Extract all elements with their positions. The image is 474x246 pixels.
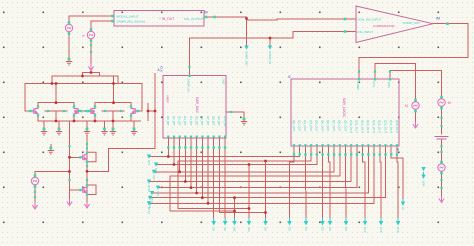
- svg-text:Q7_OUT: Q7_OUT: [332, 120, 336, 132]
- svg-text:SAMP_SIG: SAMP_SIG: [244, 51, 248, 67]
- svg-text:VRF: VRF: [421, 181, 425, 187]
- svg-text:C15: C15: [379, 227, 383, 233]
- svg-text:Q16_OUT: Q16_OUT: [383, 120, 387, 133]
- svg-text:SAMP_IN: SAMP_IN: [187, 79, 191, 92]
- svg-text:?: ?: [159, 17, 161, 21]
- svg-text:INV_INPUT: INV_INPUT: [358, 30, 374, 34]
- svg-text:COMP: COMP: [356, 82, 360, 91]
- svg-text:SIG_OUTPUT: SIG_OUTPUT: [184, 17, 204, 21]
- svg-text:Q4_OUT: Q4_OUT: [315, 120, 319, 132]
- svg-text:Q11_OUT: Q11_OUT: [355, 120, 359, 133]
- svg-text:VREF: VREF: [166, 95, 170, 103]
- svg-text:D3_BIT: D3_BIT: [183, 116, 187, 126]
- svg-text:NON_INV_INPUT: NON_INV_INPUT: [358, 17, 382, 21]
- svg-text:Q5_OUT: Q5_OUT: [320, 120, 324, 132]
- svg-text:CLK: CLK: [372, 82, 376, 88]
- svg-text:VDD: VDD: [387, 82, 391, 88]
- svg-text:Q13_OUT: Q13_OUT: [366, 120, 370, 133]
- svg-text:C6: C6: [328, 227, 332, 231]
- svg-text:Q6_OUT: Q6_OUT: [326, 120, 330, 132]
- svg-text:Q0_OUT: Q0_OUT: [292, 120, 296, 132]
- svg-text:IN_OUT: IN_OUT: [162, 17, 174, 21]
- svg-text:Q2_OUT: Q2_OUT: [303, 120, 307, 132]
- svg-text:D9_BIT: D9_BIT: [217, 116, 221, 126]
- svg-text:D0_BIT: D0_BIT: [166, 116, 170, 126]
- svg-text:NT14: NT14: [147, 207, 151, 214]
- svg-text:Q12_OUT: Q12_OUT: [360, 120, 364, 133]
- svg-text:Q8_OUT: Q8_OUT: [338, 120, 342, 132]
- svg-text:NT7: NT7: [152, 175, 156, 181]
- svg-text:SAR_DAC: SAR_DAC: [195, 97, 199, 114]
- svg-text:S0: S0: [223, 227, 227, 231]
- svg-text:CLK: CLK: [160, 66, 164, 72]
- svg-text:D5_BIT: D5_BIT: [195, 116, 199, 126]
- svg-text:S8: S8: [212, 227, 216, 231]
- svg-text:NT11: NT11: [156, 191, 160, 198]
- svg-text:M: M: [448, 101, 451, 105]
- svg-text:SAMPLING_SIGNAL: SAMPLING_SIGNAL: [117, 20, 146, 24]
- svg-text:Q15_OUT: Q15_OUT: [378, 120, 382, 133]
- svg-text:C18: C18: [396, 227, 400, 233]
- svg-text:C5: C5: [320, 227, 324, 231]
- svg-text:Q18_OUT: Q18_OUT: [395, 120, 399, 133]
- svg-text:COMP_IN: COMP_IN: [268, 51, 272, 64]
- svg-text:C9: C9: [344, 227, 348, 231]
- svg-text:OUT: OUT: [222, 79, 226, 86]
- svg-text:D10_BIT: D10_BIT: [223, 116, 227, 128]
- svg-text:COMPARATOR: COMPARATOR: [373, 24, 395, 28]
- svg-text:C12: C12: [363, 227, 367, 233]
- svg-text:C2: C2: [304, 227, 308, 231]
- svg-text:I2: I2: [288, 75, 291, 79]
- svg-text:NT1: NT1: [147, 160, 151, 166]
- svg-text:D1_BIT: D1_BIT: [172, 116, 176, 126]
- svg-text:S9: S9: [263, 227, 267, 231]
- svg-text:M: M: [205, 11, 208, 15]
- svg-text:C0: C0: [287, 227, 291, 231]
- svg-text:D4_BIT: D4_BIT: [189, 116, 193, 126]
- svg-text:D6_BIT: D6_BIT: [200, 116, 204, 126]
- svg-text:D8_BIT: D8_BIT: [212, 116, 216, 126]
- svg-text:W3: W3: [247, 227, 251, 232]
- svg-text:MODUL_INPUT: MODUL_INPUT: [117, 14, 139, 18]
- svg-text:Q10_OUT: Q10_OUT: [349, 120, 353, 133]
- svg-text:IM: IM: [436, 17, 440, 21]
- svg-text:Q3_OUT: Q3_OUT: [309, 120, 313, 132]
- svg-text:COMP_OUT: COMP_OUT: [403, 21, 420, 25]
- svg-text:Q1_OUT: Q1_OUT: [298, 120, 302, 132]
- svg-text:M: M: [405, 104, 408, 108]
- svg-text:D2_BIT: D2_BIT: [177, 116, 181, 126]
- svg-text:SAR_LOGIC: SAR_LOGIC: [342, 98, 346, 118]
- svg-text:D7_BIT: D7_BIT: [206, 116, 210, 126]
- svg-text:Q14_OUT: Q14_OUT: [372, 120, 376, 133]
- svg-text:W2: W2: [232, 227, 236, 232]
- svg-text:Q9_OUT: Q9_OUT: [343, 120, 347, 132]
- svg-text:Q17_OUT: Q17_OUT: [389, 120, 393, 133]
